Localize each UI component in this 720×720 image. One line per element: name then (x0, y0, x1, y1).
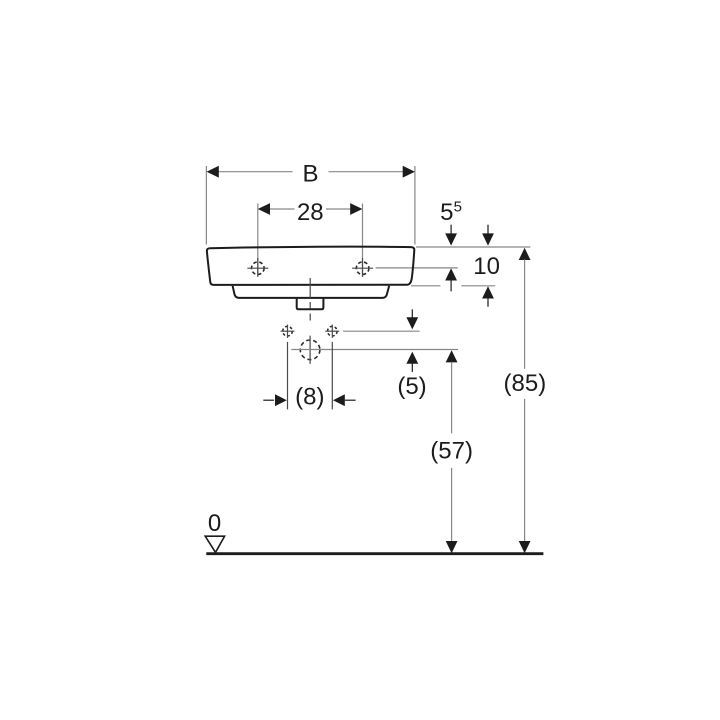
dimension (57) (446, 350, 458, 553)
drain box outline (297, 298, 324, 309)
dimension 5.5 upper arrow (445, 225, 457, 246)
svg-text:5: 5 (440, 199, 453, 226)
dimension 10 upper arrow (482, 225, 494, 246)
reference line basin bottom level (411, 285, 495, 287)
svg-text:(8): (8) (295, 384, 324, 411)
svg-text:(5): (5) (397, 373, 426, 400)
extension line below left fixing hole (287, 342, 289, 410)
datum triangle (205, 536, 224, 552)
svg-text:B: B (302, 161, 318, 188)
dimension line B (207, 166, 415, 178)
dimension (5) upper arrow (406, 309, 418, 329)
dimension (5) lower arrow (406, 352, 418, 372)
svg-text:10: 10 (473, 253, 500, 280)
reference line drain hole level (291, 349, 458, 351)
dimension 10 lower arrow (482, 286, 494, 306)
fixing hole right (325, 325, 339, 338)
centerline through drain (309, 278, 311, 321)
extension line right of dimension B (414, 166, 416, 245)
washbasin main body outline (207, 247, 414, 285)
dimension (85) (519, 248, 531, 553)
extension line right of dimension 28 (362, 204, 364, 277)
extension line below right fixing hole (331, 342, 333, 410)
svg-text:(57): (57) (430, 438, 473, 465)
svg-text:28: 28 (297, 199, 324, 226)
washbasin lower tier outline (233, 286, 390, 298)
tap hole right (352, 258, 373, 277)
reference line tap hole level (376, 267, 458, 269)
dimension 5.5 lower arrow (445, 268, 457, 291)
dimension line 28 (258, 203, 363, 215)
reference line basin top level (416, 246, 530, 248)
dimension (8) arrows (263, 394, 355, 406)
reference line fixing hole level (343, 330, 420, 332)
tap hole left (247, 258, 268, 277)
svg-text:(85): (85) (504, 370, 547, 397)
svg-text:0: 0 (208, 510, 221, 537)
floor line (206, 552, 543, 555)
extension line left of dimension 28 (257, 204, 259, 277)
svg-text:5: 5 (454, 199, 462, 216)
extension line left of dimension B (205, 166, 207, 245)
drain trap hole (300, 336, 320, 364)
fixing hole left (281, 325, 295, 338)
